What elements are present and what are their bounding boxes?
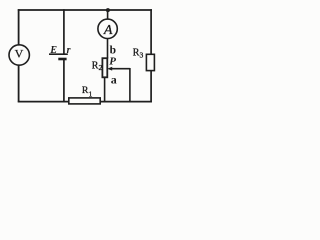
svg-text:a: a [111,72,117,86]
wire battery branch lower [63,60,65,102]
resistor R2 (rheostat) [102,58,107,77]
junction dot [106,8,110,12]
svg-text:R1: R1 [82,85,93,99]
wire top [18,9,152,11]
wire right upper [150,9,152,54]
wire battery branch upper [63,9,65,54]
resistor R3 [146,54,154,70]
wire bottom left [18,101,69,103]
svg-text:R3: R3 [133,47,144,59]
wiper arrow P [111,68,130,70]
ammeter A [98,19,117,38]
wire R2 to bottom [104,77,106,102]
svg-text:V: V [15,46,24,60]
svg-text:r: r [67,45,71,56]
wire bottom right [100,101,152,103]
wire wiper down [129,68,131,102]
resistor R1 [69,98,100,104]
wire ammeter stub [107,10,109,20]
wire ammeter to R2 [107,38,109,58]
battery plate short [58,58,66,61]
svg-text:R2: R2 [92,60,103,72]
battery plate long [49,53,68,55]
svg-text:A: A [103,23,113,38]
svg-text:P: P [109,56,116,68]
wire right lower [150,71,152,103]
wire left lower [18,65,20,102]
voltmeter V [9,45,29,65]
wire left upper [18,9,20,45]
svg-text:E: E [49,45,57,56]
